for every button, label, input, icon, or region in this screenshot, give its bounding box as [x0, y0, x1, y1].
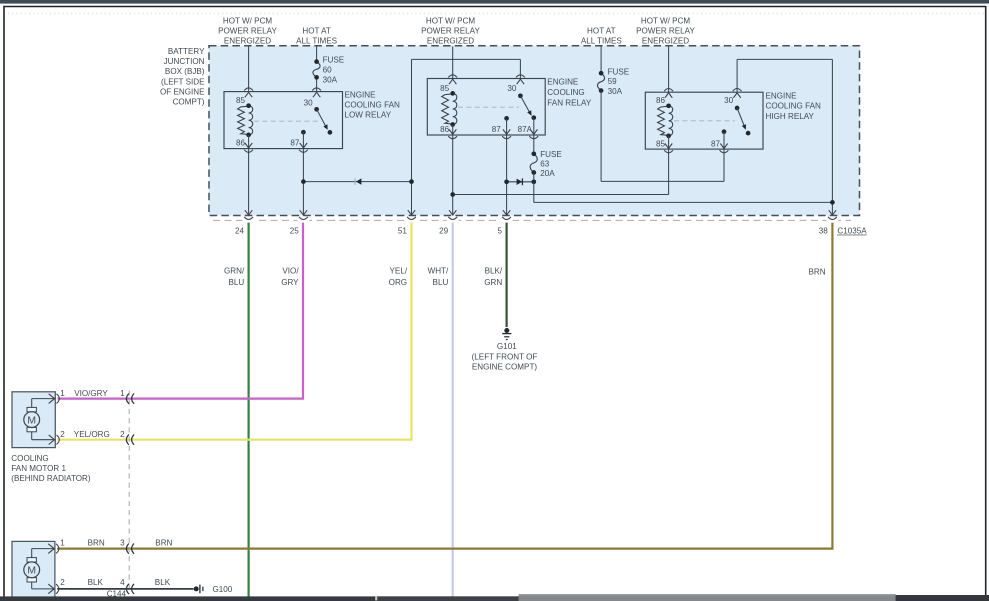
fuse F59: [597, 73, 604, 90]
svg-text:3: 3: [120, 539, 125, 548]
cooling fan motor 1 box: [12, 392, 55, 448]
wire: header to high relay pin 86: [668, 47, 670, 93]
ground G101: [504, 328, 509, 333]
relay K3 connector symbols: [664, 89, 673, 92]
relay K2 connector symbols: [448, 75, 457, 78]
svg-text:M: M: [27, 415, 36, 426]
connector C144 inline symbol pin 4: [126, 584, 129, 594]
relay K1 mechanical link (dashed): [254, 120, 320, 122]
wire: header to fuse 60 and relay pin 30: [316, 47, 318, 62]
relay K3 pin 87 contact: [722, 129, 727, 134]
svg-text:HOT AT: HOT AT: [587, 27, 616, 36]
svg-text:GRN: GRN: [484, 278, 502, 287]
wire BLK from motor 2 to ground G100: [57, 588, 193, 590]
relay K1 coil between pins 85 and 86: [238, 106, 249, 134]
svg-text:VIO/: VIO/: [282, 267, 299, 276]
svg-text:ENERGIZED: ENERGIZED: [224, 37, 271, 46]
svg-text:HOT W/ PCM: HOT W/ PCM: [223, 16, 273, 25]
motor M2 connector symbols at box edge: [48, 544, 54, 554]
wire: branch from pin-51 vertical over to fan relay pin 30: [412, 58, 521, 60]
connector C1035A pin 29: [447, 217, 459, 224]
svg-text:25: 25: [290, 226, 300, 235]
svg-text:87: 87: [711, 140, 721, 149]
svg-text:C1035A: C1035A: [837, 226, 867, 235]
faint perforation dotted row: [8, 12, 984, 14]
fuse F63: [530, 154, 537, 173]
svg-text:COOLING FAN: COOLING FAN: [766, 102, 821, 111]
relay K2 ENGINE COOLING FAN RELAY box: [427, 79, 545, 136]
svg-text:ENGINE: ENGINE: [547, 78, 579, 87]
svg-text:FUSE: FUSE: [608, 68, 630, 77]
svg-text:ENERGIZED: ENERGIZED: [642, 37, 689, 46]
wire YEL/ORG circuit 51 to motor 1 pin 2: [58, 223, 412, 440]
svg-text:38: 38: [819, 226, 829, 235]
svg-text:COOLING FAN: COOLING FAN: [345, 100, 400, 109]
svg-text:COMPT): COMPT): [173, 98, 205, 107]
svg-text:4: 4: [120, 578, 125, 587]
svg-text:29: 29: [439, 226, 449, 235]
motor M2 internal wires: [31, 549, 33, 558]
svg-text:ALL TIMES: ALL TIMES: [296, 37, 338, 46]
connector C1035A pin 25: [297, 217, 309, 224]
wire: low relay 86 down to pin 24 exit: [248, 149, 250, 215]
svg-text:BLU: BLU: [433, 278, 449, 287]
wire: fuse 59 down and right to high relay pin 87: [600, 91, 602, 182]
svg-text:30A: 30A: [323, 76, 338, 85]
svg-text:86: 86: [656, 96, 666, 105]
wire: fan relay 87 down to pin 5 exit: [506, 136, 508, 216]
svg-text:FUSE: FUSE: [323, 56, 345, 65]
svg-text:HOT AT: HOT AT: [302, 27, 331, 36]
relay K1 ENGINE COOLING FAN LOW RELAY box: [224, 92, 343, 149]
connector C1035A pin 24: [243, 217, 255, 224]
svg-text:1: 1: [60, 539, 65, 548]
connector C144 dashed boundary line: [128, 391, 130, 595]
svg-text:63: 63: [540, 160, 550, 169]
svg-text:ORG: ORG: [389, 278, 407, 287]
svg-text:BOX (BJB): BOX (BJB): [165, 67, 205, 76]
wire: junction from pin-51 branch to low relay 87 (arrow left): [303, 181, 411, 183]
svg-text:HOT W/ PCM: HOT W/ PCM: [426, 16, 476, 25]
svg-text:FAN RELAY: FAN RELAY: [547, 98, 592, 107]
wire VIO/GRY circuit 25 to motor 1 pin 1: [58, 223, 304, 399]
connector C144 inline symbol pin 1: [126, 394, 129, 404]
svg-text:POWER RELAY: POWER RELAY: [636, 27, 695, 36]
svg-text:24: 24: [235, 226, 245, 235]
svg-text:1: 1: [60, 389, 65, 398]
relay K1 switch arm from pin 30: [314, 107, 319, 112]
svg-text:YEL/: YEL/: [390, 267, 408, 276]
svg-text:POWER RELAY: POWER RELAY: [218, 27, 277, 36]
svg-text:BLK: BLK: [155, 578, 171, 587]
svg-text:ENGINE: ENGINE: [766, 91, 798, 100]
svg-text:20A: 20A: [540, 169, 555, 178]
ground G100: [194, 586, 199, 591]
connector C144 inline symbol pin 2: [126, 435, 129, 445]
svg-text:HIGH RELAY: HIGH RELAY: [766, 112, 815, 121]
relay K3 mechanical link (dashed): [674, 120, 735, 122]
svg-text:ALL TIMES: ALL TIMES: [581, 37, 623, 46]
wire: fuse 63 to junction with relay-87 wire (arrow right): [533, 173, 535, 182]
svg-text:BLK/: BLK/: [485, 267, 503, 276]
svg-text:LOW RELAY: LOW RELAY: [345, 110, 392, 119]
svg-text:BLU: BLU: [228, 278, 244, 287]
svg-text:(LEFT FRONT OF: (LEFT FRONT OF: [472, 352, 538, 361]
svg-text:59: 59: [608, 77, 618, 86]
svg-text:COOLING: COOLING: [11, 454, 48, 463]
connector C1035A dashed line: [213, 219, 851, 221]
svg-text:FAN MOTOR 1: FAN MOTOR 1: [11, 464, 66, 473]
svg-text:POWER RELAY: POWER RELAY: [421, 27, 480, 36]
relay K2 coil between pins 85 and 86: [442, 94, 453, 124]
svg-text:5: 5: [497, 226, 502, 235]
svg-text:G100: G100: [213, 585, 233, 594]
svg-text:HOT W/ PCM: HOT W/ PCM: [641, 16, 691, 25]
svg-text:87: 87: [492, 125, 502, 134]
svg-text:60: 60: [323, 65, 333, 74]
wire: high relay pin 30 up, over and down to pin 38 exit: [736, 59, 738, 92]
svg-text:2: 2: [60, 578, 65, 587]
wire: low relay 87 down to pin 25 exit: [302, 149, 304, 215]
svg-text:GRN/: GRN/: [224, 267, 245, 276]
svg-text:(BEHIND RADIATOR): (BEHIND RADIATOR): [11, 474, 91, 483]
wire: fuse 63 junction down and right to pin 38 wire: [533, 182, 535, 203]
svg-text:WHT/: WHT/: [428, 267, 449, 276]
wire: header to low relay pin 85: [248, 47, 250, 92]
svg-text:BRN: BRN: [809, 268, 826, 277]
bottom scrollbar thumb: [519, 594, 896, 601]
connector C1035A pin 5: [501, 217, 513, 224]
svg-text:GRY: GRY: [281, 278, 299, 287]
wire GRN/BLU circuit 24 to bottom: [248, 223, 250, 597]
svg-text:ENGINE COMPT): ENGINE COMPT): [472, 363, 538, 372]
svg-text:86: 86: [440, 125, 450, 134]
relay K2 switch arm from pin 30: [518, 93, 523, 98]
svg-text:ENGINE: ENGINE: [345, 90, 377, 99]
relay K2 pin 86 wire inside: [452, 125, 454, 135]
svg-text:M: M: [27, 566, 36, 577]
svg-text:FUSE: FUSE: [540, 150, 562, 159]
wire: fan relay 86 junction to high relay 85: [453, 194, 669, 196]
wire: vertical branch down to pin 51 exit: [411, 59, 413, 215]
svg-text:BLK: BLK: [88, 578, 104, 587]
svg-text:87: 87: [290, 138, 300, 147]
svg-text:COOLING: COOLING: [547, 88, 584, 97]
connector C144 inline symbol pin 3: [126, 544, 129, 554]
svg-text:30A: 30A: [608, 87, 623, 96]
relay K2 pin 87 contact: [504, 116, 509, 121]
relay K3 ENGINE COOLING FAN HIGH RELAY box: [645, 92, 763, 149]
svg-text:30: 30: [304, 99, 314, 108]
connector C1035A pin 38: [826, 217, 838, 224]
relay K1 pin 86 wire inside: [248, 135, 250, 148]
svg-text:BATTERY: BATTERY: [168, 47, 205, 56]
connector C1035A pin 51: [406, 217, 418, 224]
relay K3 coil between pins 86 and 85: [658, 106, 669, 135]
browser top bar: [0, 0, 989, 4]
fuse F60: [313, 62, 320, 78]
relay K1 connector symbols: [244, 88, 253, 91]
svg-text:ENERGIZED: ENERGIZED: [427, 37, 474, 46]
relay K2 pin 87A wire inside: [533, 118, 535, 135]
relay K3 switch arm from pin 30: [735, 106, 740, 111]
svg-text:1: 1: [120, 389, 125, 398]
svg-text:85: 85: [656, 140, 666, 149]
svg-text:86: 86: [236, 138, 246, 147]
relay K2 mechanical link (dashed): [458, 106, 519, 108]
wire BRN circuit 38 to motor 2 pin 1: [57, 223, 832, 549]
bottom scrollbar track: [0, 596, 989, 601]
wire: fan relay 87A down to fuse 63: [533, 136, 535, 154]
wire: header to fan relay pin 85: [452, 47, 454, 79]
svg-text:(LEFT SIDE: (LEFT SIDE: [161, 77, 205, 86]
relay K3 pin 85 wire inside: [668, 136, 670, 149]
cooling fan motor 2 box: [12, 541, 55, 597]
svg-text:30: 30: [507, 84, 517, 93]
svg-text:VIO/GRY: VIO/GRY: [74, 389, 108, 398]
wire BLK/GRN circuit 5 to ground G101: [506, 223, 508, 327]
svg-text:85: 85: [440, 84, 450, 93]
svg-text:G101: G101: [497, 342, 517, 351]
battery junction box (BJB) dashed enclosure: [209, 46, 860, 216]
svg-text:OF ENGINE: OF ENGINE: [160, 87, 205, 96]
wire: header to fuse 59: [600, 47, 602, 74]
relay K1 pin 87 contact: [301, 130, 306, 135]
svg-text:YEL/ORG: YEL/ORG: [74, 430, 110, 439]
motor M2 symbol: [27, 558, 36, 562]
svg-text:BRN: BRN: [155, 539, 172, 548]
svg-text:2: 2: [120, 430, 125, 439]
motor M1 internal wires: [31, 399, 33, 408]
svg-text:30: 30: [724, 96, 734, 105]
wire: fan relay 86 down to pin 29 exit: [452, 136, 454, 216]
motor M1 symbol: [27, 407, 36, 411]
svg-text:JUNCTION: JUNCTION: [164, 57, 205, 66]
svg-text:2: 2: [60, 430, 65, 439]
wire WHT/BLU circuit 29 to bottom: [452, 223, 454, 597]
svg-text:85: 85: [236, 96, 246, 105]
svg-text:BRN: BRN: [88, 539, 105, 548]
svg-text:51: 51: [398, 226, 408, 235]
motor M1 connector symbols at box edge: [49, 394, 55, 404]
